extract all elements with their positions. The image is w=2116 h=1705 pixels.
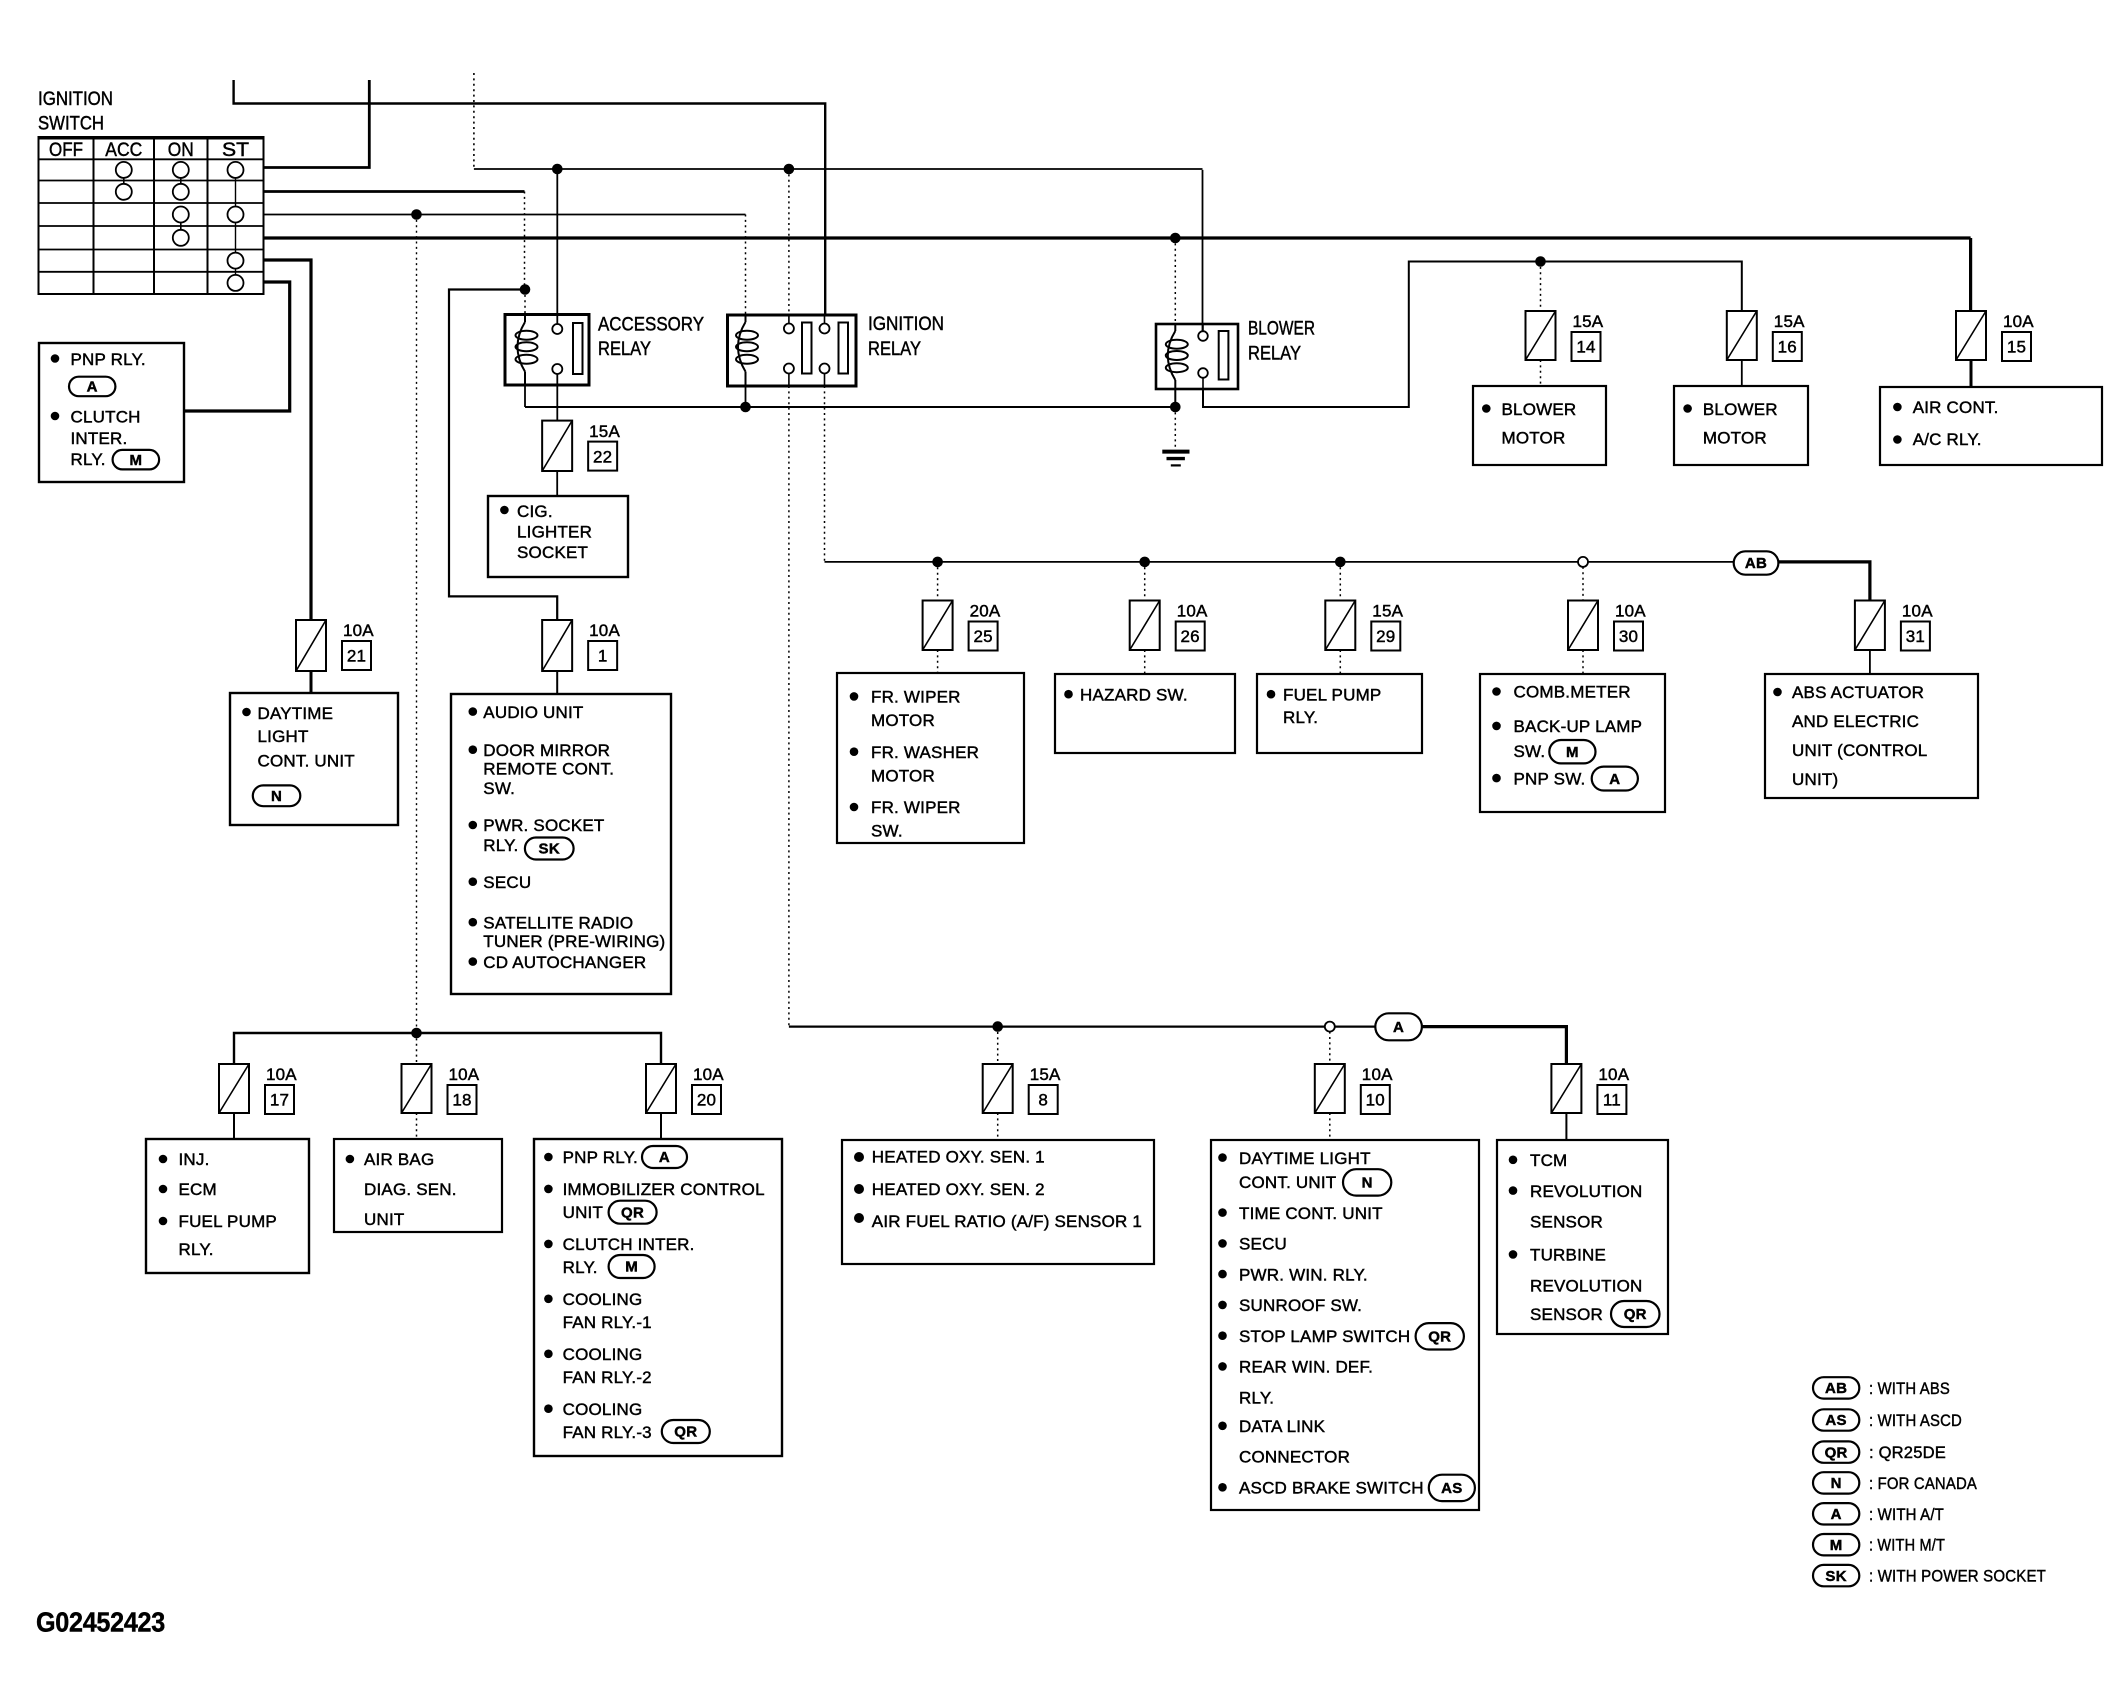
wire fuse 25 to FR wiper box — [937, 650, 939, 673]
wire blower relay coil feed drop — [1174, 238, 1176, 324]
junction dot blower relay coil feed — [1170, 233, 1181, 244]
ignition switch ON contact row3 — [173, 207, 189, 223]
svg-text:ABS ACTUATOR: ABS ACTUATOR — [1792, 683, 1924, 702]
svg-text:CD AUTOCHANGER: CD AUTOCHANGER — [483, 953, 646, 972]
svg-text:M: M — [1566, 744, 1579, 761]
ignition switch ACC contact row1 — [116, 162, 132, 178]
svg-text:COMB.METER: COMB.METER — [1514, 683, 1631, 702]
ignition switch table column lines — [93, 137, 95, 294]
blower relay coil — [1168, 331, 1176, 380]
svg-text:A: A — [659, 1149, 670, 1166]
fuse 30 number box [30] — [1614, 622, 1643, 651]
svg-text:OFF: OFF — [49, 140, 83, 161]
svg-text:18: 18 — [452, 1091, 471, 1110]
svg-text:DAYTIME: DAYTIME — [258, 704, 334, 723]
svg-text:G02452423: G02452423 — [36, 1606, 165, 1637]
bullet cooling 1 — [544, 1295, 553, 1304]
wire fuse 18 to air bag box — [416, 1113, 418, 1139]
svg-text:DAYTIME LIGHT: DAYTIME LIGHT — [1239, 1149, 1371, 1168]
wire drop row3 to ignition relay coil — [745, 215, 747, 316]
bullet AIR CONT. — [1893, 403, 1902, 412]
svg-text:10A: 10A — [2003, 312, 2034, 331]
svg-text:10A: 10A — [1902, 602, 1933, 621]
svg-text:REVOLUTION: REVOLUTION — [1530, 1182, 1643, 1201]
svg-text:SW.: SW. — [1514, 742, 1546, 761]
svg-text:SK: SK — [1825, 1568, 1846, 1585]
svg-text:RELAY: RELAY — [868, 339, 921, 360]
svg-text:DATA LINK: DATA LINK — [1239, 1417, 1326, 1436]
svg-text:MOTOR: MOTOR — [1502, 429, 1566, 448]
fuse 21 (10A) symbol — [296, 620, 326, 671]
svg-text:PNP SW.: PNP SW. — [1514, 769, 1586, 788]
bullet fuel pump — [1267, 690, 1276, 699]
wire blower relay output — [1203, 262, 1742, 408]
legend oval N — [1813, 1472, 1859, 1493]
bullet pwr socket — [469, 821, 478, 830]
svg-text:M: M — [1830, 1537, 1843, 1554]
fuse 8 (15A) symbol — [983, 1064, 1013, 1113]
wire ignition relay contact1 input from ACC bus — [788, 169, 790, 315]
legend oval SK — [1813, 1565, 1859, 1586]
wire long drop x=416 to lower fuse bus — [416, 215, 418, 1034]
junction dot fuse 14 branch — [1535, 256, 1546, 267]
svg-text:FUEL PUMP: FUEL PUMP — [179, 1212, 277, 1231]
fuse 31 (10A) symbol — [1855, 601, 1885, 651]
load box CIG. LIGHTER SOCKET — [488, 496, 628, 577]
load box COMB.METER / BACK-UP LAMP SW / PNP SW — [1480, 674, 1665, 812]
svg-text:M: M — [129, 452, 142, 469]
bullet air bag — [346, 1155, 355, 1164]
svg-text:FR. WIPER: FR. WIPER — [871, 798, 961, 817]
svg-text:DOOR MIRROR: DOOR MIRROR — [483, 741, 610, 760]
ignition switch ON link rows1-2 — [180, 178, 182, 184]
svg-text:FAN RLY.-3: FAN RLY.-3 — [563, 1423, 652, 1442]
connector oval A (with A/T) — [1375, 1013, 1422, 1040]
svg-text:: QR25DE: : QR25DE — [1869, 1443, 1946, 1462]
wire fuse 14 to blower motor 1 — [1540, 360, 1542, 386]
svg-text:29: 29 — [1376, 627, 1395, 646]
wire fuse 22 to cig lighter socket — [556, 471, 558, 496]
svg-text:10A: 10A — [266, 1065, 297, 1084]
svg-text:SECU: SECU — [483, 873, 531, 892]
fuse 29 (15A) symbol — [1325, 601, 1355, 651]
bullet turbine revolution — [1509, 1250, 1518, 1259]
svg-text:BLOWER: BLOWER — [1502, 400, 1577, 419]
ignition switch ST contact row6 — [228, 275, 244, 291]
fuse 10 (10A) symbol — [1315, 1064, 1345, 1113]
oval qualifier N (for Canada) — [253, 785, 300, 806]
wire drop to fuse 14 — [1540, 262, 1542, 312]
fuse 1 (10A) symbol — [542, 620, 572, 671]
junction dot fuse 29 branch — [1335, 557, 1346, 568]
svg-text:QR: QR — [1428, 1329, 1451, 1346]
ignition switch ON link rows3-4 — [180, 223, 182, 230]
svg-text:COOLING: COOLING — [563, 1290, 643, 1309]
svg-text:FUEL PUMP: FUEL PUMP — [1283, 685, 1381, 704]
svg-text:A: A — [1393, 1019, 1404, 1036]
svg-text:31: 31 — [1906, 627, 1925, 646]
svg-text:FAN RLY.-2: FAN RLY.-2 — [563, 1368, 652, 1387]
svg-text:REAR WIN. DEF.: REAR WIN. DEF. — [1239, 1358, 1373, 1377]
svg-text:DIAG. SEN.: DIAG. SEN. — [364, 1180, 457, 1199]
svg-text:AS: AS — [1441, 1480, 1462, 1497]
svg-text:QR: QR — [621, 1204, 644, 1221]
svg-text:PWR. WIN. RLY.: PWR. WIN. RLY. — [1239, 1265, 1368, 1284]
ignition switch table frame — [39, 137, 264, 294]
svg-text:AIR CONT.: AIR CONT. — [1913, 398, 1999, 417]
accessory relay contact circles — [552, 324, 562, 334]
svg-text:MOTOR: MOTOR — [871, 766, 935, 785]
bullet pnp sw — [1492, 774, 1501, 783]
junction dot fuse 26 branch — [1139, 557, 1150, 568]
svg-text:RLY.: RLY. — [483, 836, 518, 855]
load box HAZARD SW. — [1055, 674, 1235, 753]
bullet pwr win rly — [1218, 1270, 1227, 1279]
wire fuse 29 to fuel pump box — [1339, 650, 1341, 674]
svg-text:A: A — [87, 379, 98, 396]
blower relay contact circles — [1198, 331, 1208, 341]
svg-text:QR: QR — [1624, 1306, 1647, 1323]
load box INJ / ECM / FUEL PUMP RLY — [146, 1139, 309, 1273]
junction dot row3 to fuse 18 branch — [411, 209, 422, 220]
oval qualifier A (with A/T) — [69, 377, 115, 397]
oval qualifier AS (with ASCD) — [1429, 1475, 1475, 1501]
oval qualifier QR 3 (QR25DE) — [1416, 1323, 1464, 1349]
wire ON row4 bus y=238 — [264, 236, 1971, 239]
ground wire below blower relay coil — [1174, 407, 1176, 451]
svg-text:15A: 15A — [1372, 602, 1403, 621]
svg-text:IGNITION: IGNITION — [868, 314, 944, 335]
svg-text:CONNECTOR: CONNECTOR — [1239, 1448, 1350, 1467]
svg-text:: WITH ASCD: : WITH ASCD — [1869, 1411, 1962, 1430]
svg-text:RELAY: RELAY — [598, 339, 651, 360]
svg-text:SENSOR: SENSOR — [1530, 1213, 1603, 1232]
bullet fuel pump rly — [159, 1217, 168, 1226]
bullet sunroof sw — [1218, 1301, 1227, 1310]
wire ACC bus y=169 — [474, 168, 1203, 170]
junction dot blower coil return and ground node — [1170, 402, 1181, 413]
svg-text:20A: 20A — [970, 602, 1001, 621]
legend oval A — [1813, 1503, 1859, 1524]
bullet rear win def — [1218, 1362, 1227, 1371]
svg-text:ST: ST — [222, 140, 249, 161]
wire fuse 10 to daytime box — [1329, 1113, 1331, 1140]
svg-text:SUNROOF SW.: SUNROOF SW. — [1239, 1296, 1362, 1315]
bullet air fuel ratio — [854, 1213, 864, 1223]
svg-text:SW.: SW. — [483, 779, 515, 798]
wire drop to fuse 18 — [416, 1033, 418, 1064]
bullet ascd brake switch — [1218, 1483, 1227, 1492]
svg-text:BLOWER: BLOWER — [1248, 318, 1315, 339]
fuse 22 number box [22] — [588, 442, 617, 471]
ignition relay contact circles pair 2 — [820, 324, 830, 334]
wire drop row4 bus to fuse 15 — [1969, 238, 1972, 311]
bullet PNP RLY. — [51, 354, 60, 363]
svg-text:ACCESSORY: ACCESSORY — [598, 314, 704, 335]
load box AIR CONT / A/C RLY. — [1880, 387, 2102, 465]
load box AUDIO UNIT etc — [451, 694, 671, 994]
svg-text:LIGHTER: LIGHTER — [517, 522, 592, 541]
bullet heated oxy 2 — [854, 1184, 864, 1194]
wire drop row2 to accessory relay coil — [524, 192, 526, 290]
svg-text:TIME CONT. UNIT: TIME CONT. UNIT — [1239, 1204, 1383, 1223]
oval qualifier M 2 (with M/T) — [1549, 740, 1595, 763]
svg-text:BLOWER: BLOWER — [1703, 400, 1778, 419]
svg-text:RLY.: RLY. — [1283, 708, 1318, 727]
fuse 31 number box [31] — [1901, 622, 1930, 651]
fuse 15 (10A) symbol — [1956, 311, 1986, 360]
wire ST row6 from table to PNP relay box — [184, 282, 290, 411]
wire fuse 8 riser — [997, 1027, 999, 1064]
legend oval M — [1813, 1534, 1859, 1555]
bullet fr wiper sw — [850, 803, 859, 812]
svg-text:A: A — [1831, 1506, 1842, 1523]
open junction fuse 10 branch — [1325, 1022, 1335, 1032]
legend oval QR — [1813, 1441, 1859, 1462]
load box AIR BAG DIAG SEN UNIT — [334, 1139, 502, 1232]
svg-text:N: N — [1831, 1475, 1842, 1492]
fuse 20 number box [20] — [692, 1085, 721, 1114]
fuse 14 (15A) symbol — [1526, 311, 1556, 360]
bullet cd autochanger — [469, 957, 478, 966]
fuse 18 number box [18] — [448, 1085, 477, 1114]
svg-text:M: M — [625, 1259, 638, 1276]
svg-text:BACK-UP LAMP: BACK-UP LAMP — [1514, 717, 1643, 736]
wire fuse 30 to comb meter box — [1582, 650, 1584, 674]
svg-text:CLUTCH INTER.: CLUTCH INTER. — [563, 1235, 695, 1254]
wire ignition relay output1 down to ON bus y=1027 — [788, 386, 790, 1027]
bullet secu 2 — [1218, 1239, 1227, 1248]
fuse 8 number box [8] — [1029, 1085, 1058, 1114]
bullet immobilizer — [544, 1185, 553, 1194]
svg-text:: WITH POWER SOCKET: : WITH POWER SOCKET — [1869, 1567, 2046, 1586]
svg-text:QR: QR — [674, 1424, 697, 1441]
svg-text:PNP RLY.: PNP RLY. — [71, 350, 146, 369]
ground symbol — [1162, 450, 1189, 454]
svg-text:AIR FUEL RATIO (A/F) SENSOR 1: AIR FUEL RATIO (A/F) SENSOR 1 — [872, 1212, 1142, 1231]
ignition switch ST contact row1 — [228, 162, 244, 178]
svg-text:UNIT): UNIT) — [1792, 770, 1838, 789]
svg-text:CONT. UNIT: CONT. UNIT — [258, 751, 355, 770]
svg-text:MOTOR: MOTOR — [1703, 429, 1767, 448]
svg-text:ECM: ECM — [179, 1180, 217, 1199]
svg-text:SK: SK — [539, 841, 560, 858]
junction dot fuse 8 branch — [992, 1021, 1003, 1032]
load box ABS ACTUATOR AND ELECTRIC UNIT — [1765, 674, 1978, 798]
load box PNP RLY / CLUTCH INTER. RLY. — [39, 343, 184, 482]
svg-text:TURBINE: TURBINE — [1530, 1246, 1606, 1265]
svg-text:15: 15 — [2007, 338, 2026, 357]
svg-text:11: 11 — [1603, 1091, 1621, 1110]
svg-text:TCM: TCM — [1530, 1151, 1567, 1170]
svg-text:RLY.: RLY. — [179, 1240, 214, 1259]
ignition relay contact circles pair 1 — [784, 324, 794, 334]
svg-text:IGNITION: IGNITION — [38, 89, 113, 110]
svg-text:AIR BAG: AIR BAG — [364, 1150, 434, 1169]
svg-text:INTER.: INTER. — [71, 429, 128, 448]
svg-text:COOLING: COOLING — [563, 1345, 643, 1364]
svg-text:HEATED OXY. SEN. 1: HEATED OXY. SEN. 1 — [872, 1148, 1045, 1167]
wire fuse 21 to daytime light box — [310, 671, 313, 693]
wire fuse 17 to INJ box — [233, 1113, 235, 1139]
bullet fr wiper motor — [850, 692, 859, 701]
bullet back-up lamp — [1492, 722, 1501, 731]
wire bus y=1033 for fuses 17/18/20 with end drops — [234, 1033, 661, 1064]
load box FR WIPER MOTOR / FR WASHER MOTOR / FR WIPER SW — [837, 673, 1024, 843]
svg-text:CIG.: CIG. — [517, 502, 553, 521]
load box BLOWER MOTOR 2 — [1674, 386, 1808, 465]
svg-text:26: 26 — [1181, 627, 1200, 646]
svg-text:25: 25 — [973, 627, 992, 646]
svg-text:MOTOR: MOTOR — [871, 711, 935, 730]
bullet tcm — [1509, 1156, 1518, 1165]
ignition switch ACC contact row2 — [116, 184, 132, 200]
wire accessory coil node into relay — [524, 290, 526, 315]
svg-text:SW.: SW. — [871, 822, 903, 841]
fuse 26 (10A) symbol — [1130, 601, 1160, 651]
svg-text:20: 20 — [697, 1091, 716, 1110]
load box FUEL PUMP RLY. — [1257, 674, 1422, 753]
accessory relay coil — [518, 322, 526, 372]
svg-text:LIGHT: LIGHT — [258, 727, 309, 746]
wire fuse 29 riser — [1339, 562, 1341, 601]
svg-text:10A: 10A — [1177, 602, 1208, 621]
svg-text:COOLING: COOLING — [563, 1400, 643, 1419]
load box DAYTIME LIGHT CONT. UNIT — [230, 693, 398, 825]
svg-text:N: N — [271, 788, 282, 805]
oval qualifier N 2 (for Canada) — [1343, 1169, 1391, 1195]
svg-text:15A: 15A — [1774, 312, 1805, 331]
svg-text:AB: AB — [1745, 555, 1767, 572]
ignition relay contact bar 2 — [839, 323, 849, 374]
oval qualifier QR 4 (QR25DE) — [1611, 1301, 1660, 1327]
wire battery feed stub 3 (x=474) — [473, 73, 475, 169]
fuse 14 number box [14] — [1572, 332, 1601, 361]
fuse 17 number box [17] — [265, 1085, 294, 1114]
svg-text:10: 10 — [1366, 1091, 1385, 1110]
svg-text:RLY.: RLY. — [1239, 1388, 1274, 1407]
wire drop to fuse 16 — [1741, 261, 1743, 312]
oval qualifier QR (QR25DE) — [609, 1201, 657, 1224]
svg-text:8: 8 — [1038, 1091, 1048, 1110]
fuse 10 number box [10] — [1361, 1085, 1390, 1114]
svg-text:QR: QR — [1825, 1444, 1848, 1461]
svg-text:ON: ON — [168, 140, 194, 161]
svg-text:16: 16 — [1778, 338, 1797, 357]
svg-text:SENSOR: SENSOR — [1530, 1305, 1603, 1324]
ignition switch table row lines — [39, 158, 264, 160]
wire bus y=1027 from ignition relay output1 — [789, 1025, 1375, 1027]
svg-text:REVOLUTION: REVOLUTION — [1530, 1276, 1643, 1295]
svg-text:15A: 15A — [589, 422, 620, 441]
svg-text:10A: 10A — [1362, 1065, 1393, 1084]
svg-text:FAN RLY.-1: FAN RLY.-1 — [563, 1313, 652, 1332]
open junction fuse 30 branch — [1578, 557, 1588, 567]
wire bus y=407 (coil returns) — [525, 406, 1175, 408]
wire fuse 16 to blower motor 2 — [1741, 360, 1743, 386]
svg-text:HAZARD SW.: HAZARD SW. — [1080, 685, 1188, 704]
svg-text:AUDIO UNIT: AUDIO UNIT — [483, 703, 583, 722]
wire fuse 26 to hazard box — [1144, 650, 1146, 674]
bullet A/C RLY. — [1893, 435, 1902, 444]
bullet daytime light 2 — [1218, 1153, 1227, 1162]
junction dot ignition relay contact1 feed — [784, 164, 795, 175]
bullet daytime light — [242, 708, 251, 717]
svg-text:10A: 10A — [449, 1065, 480, 1084]
ignition switch ON contact row1 — [173, 162, 189, 178]
junction dot accessory coil node — [520, 284, 531, 295]
svg-text:N: N — [1362, 1175, 1373, 1192]
bullet blower motor 1 — [1482, 404, 1491, 413]
bullet cooling 3 — [544, 1404, 553, 1413]
bullet secu — [469, 877, 478, 886]
svg-text:SOCKET: SOCKET — [517, 543, 588, 562]
wire AB to fuse 31 (thick) — [1778, 562, 1870, 601]
bullet comb meter — [1492, 687, 1501, 696]
svg-text:21: 21 — [347, 647, 366, 666]
accessory relay contact bar — [573, 323, 583, 374]
wire ON row3 from table to ignition relay coil — [264, 214, 746, 216]
oval qualifier M 3 (with M/T) — [609, 1255, 655, 1278]
ignition relay coil — [738, 322, 746, 372]
fuse 15 number box [15] — [2002, 332, 2031, 361]
wire fuse 1 to audio unit box — [556, 671, 558, 694]
oval qualifier A 3 (with A/T) — [642, 1146, 687, 1168]
wire ignition relay output2 down to bus y=562 — [824, 386, 826, 562]
wire accessory relay contact input from ACC bus — [556, 169, 558, 315]
svg-text:AS: AS — [1825, 1412, 1846, 1429]
svg-text:: FOR CANADA: : FOR CANADA — [1869, 1474, 1977, 1493]
svg-text:A/C RLY.: A/C RLY. — [1913, 430, 1982, 449]
svg-text:CONT. UNIT: CONT. UNIT — [1239, 1173, 1336, 1192]
oval qualifier SK (with power socket) — [525, 838, 574, 860]
load box TCM / REVOLUTION SENSOR etc — [1497, 1140, 1668, 1334]
ignition switch ST link rows5-6 — [235, 269, 237, 275]
wire accessory relay output to fuse 22 — [556, 385, 558, 421]
fuse 26 number box [26] — [1176, 622, 1205, 651]
bullet data link — [1218, 1422, 1227, 1431]
svg-text:AB: AB — [1825, 1380, 1847, 1397]
bullet door mirror — [469, 745, 478, 754]
load box DAYTIME LIGHT CONT UNIT etc — [1211, 1140, 1479, 1510]
oval qualifier A 2 (with A/T) — [1592, 767, 1638, 791]
bullet hazard — [1064, 690, 1073, 699]
fuse 11 (10A) symbol — [1551, 1064, 1581, 1113]
bullet pnp rly 2 — [544, 1153, 553, 1162]
fuse 11 number box [11] — [1597, 1085, 1626, 1114]
svg-text:PNP RLY.: PNP RLY. — [563, 1148, 638, 1167]
svg-text:UNIT: UNIT — [364, 1210, 404, 1229]
bullet revolution sensor — [1509, 1186, 1518, 1195]
svg-text:1: 1 — [598, 647, 608, 666]
ignition relay contact bar 1 — [802, 323, 812, 374]
wire ignition coil bottom to y=407 bus — [745, 386, 747, 407]
fuse 18 (10A) symbol — [402, 1064, 432, 1113]
svg-text:: WITH A/T: : WITH A/T — [1869, 1505, 1944, 1524]
fuse 16 number box [16] — [1773, 332, 1802, 361]
svg-text:15A: 15A — [1030, 1065, 1061, 1084]
wire bus y=562 from ignition relay output2 — [825, 561, 1734, 563]
bullet audio unit — [469, 707, 478, 716]
bullet satellite radio — [469, 918, 478, 927]
svg-text:FR. WASHER: FR. WASHER — [871, 743, 979, 762]
bullet ecm — [159, 1185, 168, 1194]
fuse 21 number box [21] — [342, 641, 371, 670]
bullet fr washer motor — [850, 747, 859, 756]
junction dot fuse bus at x=416 — [411, 1028, 422, 1039]
ignition switch ST contact row3 — [228, 207, 244, 223]
legend oval AS — [1813, 1409, 1859, 1430]
